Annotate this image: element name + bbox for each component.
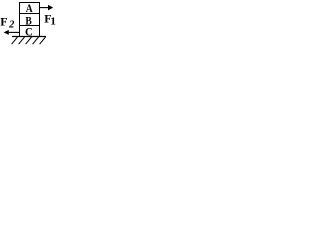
svg-text:F: F [0,14,7,28]
ground hatching [12,37,46,44]
svg-text:A: A [26,2,33,15]
force arrow F2 (points left, bottom) [4,30,20,35]
divider A/B [19,13,40,15]
svg-text:2: 2 [8,20,15,31]
divider B/C [19,25,40,27]
block stack outline (box) [20,3,40,37]
force arrow F1 (points right, top) [40,5,54,11]
ground line [12,36,46,38]
background [0,0,59,47]
svg-text:1: 1 [50,15,56,27]
